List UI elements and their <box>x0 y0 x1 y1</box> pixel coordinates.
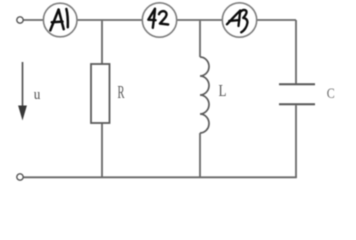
svg-text:u: u <box>34 87 41 103</box>
svg-text:C: C <box>327 86 335 102</box>
svg-text:L: L <box>219 81 227 100</box>
svg-text:R: R <box>118 82 125 102</box>
